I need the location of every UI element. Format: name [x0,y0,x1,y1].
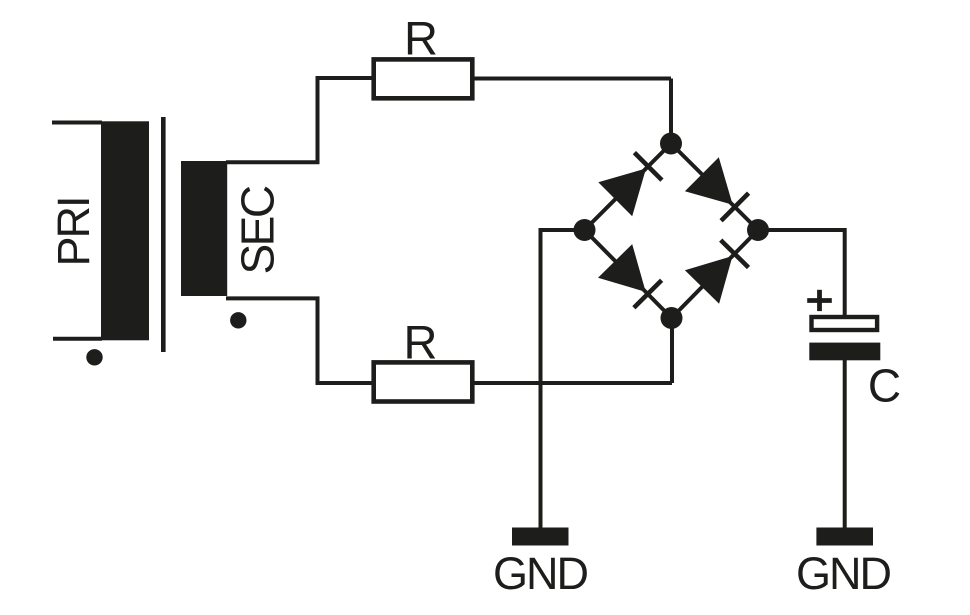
svg-text:PRI: PRI [48,197,99,266]
svg-text:GND: GND [493,548,588,599]
svg-text:SEC: SEC [232,186,284,274]
svg-text:C: C [868,360,901,412]
svg-text:R: R [404,12,438,65]
svg-text:GND: GND [796,548,891,599]
svg-text:R: R [404,316,438,369]
